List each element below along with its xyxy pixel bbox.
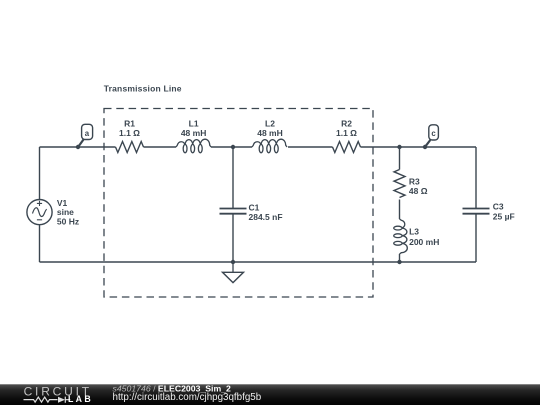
svg-text:1.1 Ω: 1.1 Ω — [336, 128, 357, 138]
wire left vertical below V1 — [39, 225, 41, 262]
junction dot R3 bottom — [397, 260, 401, 264]
ground — [223, 262, 244, 283]
svg-text:25 µF: 25 µF — [493, 212, 515, 222]
svg-text:R2: R2 — [341, 118, 352, 128]
svg-text:LAB: LAB — [68, 394, 93, 404]
junction dot R3 top — [397, 145, 401, 149]
svg-text:1.1 Ω: 1.1 Ω — [119, 128, 140, 138]
svg-text:http://circuitlab.com/cjhpg3qf: http://circuitlab.com/cjhpg3qfbfg5b — [113, 392, 262, 403]
inductor L2 — [252, 139, 287, 153]
svg-text:a: a — [85, 129, 90, 138]
svg-text:200 mH: 200 mH — [409, 237, 439, 247]
wire R1 to L1 — [144, 146, 177, 148]
capacitor C3 — [463, 209, 490, 214]
voltage source V1 — [27, 200, 52, 225]
svg-text:L2: L2 — [265, 118, 275, 128]
svg-text:R1: R1 — [124, 118, 135, 128]
junction dot C1 top — [231, 145, 235, 149]
svg-text:L3: L3 — [409, 227, 419, 237]
wire top: node a to R1 — [40, 146, 116, 148]
svg-text:48 mH: 48 mH — [181, 128, 207, 138]
footer bar — [0, 384, 540, 405]
svg-text:50 Hz: 50 Hz — [57, 217, 79, 227]
wire C1 bottom lead — [232, 214, 234, 262]
wire C3 top lead — [475, 147, 477, 208]
svg-text:48 Ω: 48 Ω — [409, 186, 428, 196]
svg-text:48 mH: 48 mH — [257, 128, 283, 138]
node c flag — [423, 125, 439, 149]
svg-text:R3: R3 — [409, 177, 420, 187]
wire left vertical above V1 — [39, 147, 41, 200]
svg-text:C3: C3 — [493, 202, 504, 212]
node a flag — [76, 124, 93, 149]
svg-text:284.5 nF: 284.5 nF — [249, 212, 283, 222]
wire R2 to C3 branch — [361, 146, 477, 148]
wire L3 bottom lead — [399, 254, 401, 262]
wire R3 to L3 — [399, 200, 401, 220]
svg-text:c: c — [431, 129, 436, 138]
resistor R2 — [333, 142, 361, 153]
footer logo wire-resistor-diode — [24, 397, 71, 403]
transmission line dashed box — [104, 109, 373, 298]
svg-text:Transmission Line: Transmission Line — [104, 83, 182, 93]
inductor L1 — [176, 139, 211, 153]
wire R3 top lead — [399, 147, 401, 170]
capacitor C1 — [220, 209, 247, 214]
wire L1 to L2 — [211, 146, 252, 148]
inductor L3 — [394, 219, 408, 254]
resistor R1 — [116, 142, 144, 153]
junction dot ground node — [231, 260, 235, 264]
wire C1 top lead — [232, 147, 234, 208]
svg-text:L1: L1 — [189, 118, 199, 128]
resistor R3 — [394, 170, 405, 198]
wire L2 to R2 — [288, 146, 333, 148]
wire bottom — [40, 261, 477, 263]
wire C3 bottom lead — [475, 214, 477, 262]
